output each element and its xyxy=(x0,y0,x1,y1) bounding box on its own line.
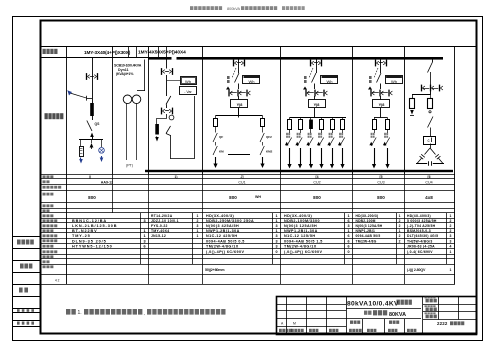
load arrow xyxy=(342,148,344,165)
breaker QF drop xyxy=(213,133,217,142)
wire to delta xyxy=(430,144,432,149)
wire meter tie xyxy=(167,80,180,82)
svg-text:4x8: 4x8 xyxy=(425,195,433,200)
contactor KM drop xyxy=(213,146,217,155)
svg-text:2: 2 xyxy=(450,229,452,233)
trip link dashed xyxy=(374,68,378,78)
svg-text:1: 1 xyxy=(143,234,145,238)
earth arrow left xyxy=(80,158,82,161)
current transformer circle xyxy=(169,115,174,120)
breaker drop xyxy=(371,138,376,147)
contactor wedge xyxy=(306,142,310,145)
distribution bus col E xyxy=(290,117,347,119)
svg-text:6: 6 xyxy=(143,245,145,249)
wire xyxy=(387,129,389,133)
svg-text:HD(3X-400/3): HD(3X-400/3) xyxy=(284,214,312,218)
wire feeder drop xyxy=(238,96,240,100)
wire xyxy=(215,127,217,133)
switch col G xyxy=(428,62,433,73)
equipment list group1 xyxy=(72,219,146,249)
wire drop xyxy=(387,118,389,120)
wire branch left xyxy=(80,140,82,147)
wire drop xyxy=(374,118,376,120)
svg-text:1: 1 xyxy=(399,229,401,233)
svg-text:TH(5W-4/BG/3: TH(5W-4/BG/3 xyxy=(407,239,433,243)
svg-text:- Var: - Var xyxy=(184,90,192,94)
svg-text:3: 3 xyxy=(143,239,145,243)
equipment list group4 xyxy=(284,214,350,254)
breaker drop xyxy=(340,138,345,147)
wire loop bottom xyxy=(171,158,195,160)
breaker drop labels xyxy=(384,133,388,138)
svg-text:RT14-20/2A: RT14-20/2A xyxy=(151,214,173,218)
switch lower col C xyxy=(166,126,171,134)
svg-text:N1C-12 425/5H: N1C-12 425/5H xyxy=(206,234,237,238)
svg-text:HD(3X-200/3): HD(3X-200/3) xyxy=(356,214,379,218)
svg-text:1.: 1. xyxy=(78,310,82,316)
fuse FU1 xyxy=(90,103,94,116)
svg-text:BT-N22BV: BT-N22BV xyxy=(72,229,98,233)
wire drop xyxy=(310,118,312,120)
breaker drop xyxy=(308,138,313,147)
divider col G right xyxy=(454,47,456,174)
svg-text:800: 800 xyxy=(377,195,385,200)
svg-text:Y|8: Y|8 xyxy=(379,103,385,107)
label column divider xyxy=(66,47,68,284)
meter Var box xyxy=(180,87,197,95)
svg-text:J]: J] xyxy=(240,175,243,179)
svg-text:1: 1 xyxy=(275,214,277,218)
wire xyxy=(215,142,217,146)
wire xyxy=(166,75,168,96)
svg-text:1: 1 xyxy=(197,229,199,233)
svg-text:3: 3 xyxy=(347,224,349,228)
transformer spec text xyxy=(114,64,142,77)
svg-text:800: 800 xyxy=(229,195,237,200)
table column lines lower xyxy=(149,264,405,284)
svg-text:1: 1 xyxy=(347,214,349,218)
svg-text:2: 2 xyxy=(399,224,401,228)
equipment list group5 xyxy=(356,214,401,244)
breaker drop labels xyxy=(286,133,290,138)
drawout contacts feeder xyxy=(375,60,387,67)
load arrow xyxy=(387,148,389,165)
svg-text:800: 800 xyxy=(88,195,96,200)
wire branch right xyxy=(101,140,103,148)
breaker QF feeder xyxy=(316,60,318,74)
breaker drop labels xyxy=(297,133,301,138)
contactor wedge xyxy=(285,142,289,145)
wire xyxy=(310,129,312,133)
svg-text:,: , xyxy=(144,311,145,316)
title right grid labels xyxy=(425,297,437,319)
breaker drop xyxy=(297,138,302,147)
breaker drop labels xyxy=(371,133,375,138)
drawout contacts feeder xyxy=(233,60,245,67)
wire xyxy=(332,129,334,133)
note text line xyxy=(66,309,226,316)
divider col E/F xyxy=(352,47,354,174)
title block frame xyxy=(277,297,477,335)
wire drop xyxy=(300,118,302,120)
load arrow xyxy=(332,148,334,165)
svg-text:HTYWN5-12/150: HTYWN5-12/150 xyxy=(72,245,113,249)
contactor wedge xyxy=(327,142,331,145)
svg-text:NWP1-2B(1-30A: NWP1-2B(1-30A xyxy=(284,229,318,233)
svg-text:800kVA: 800kVA xyxy=(227,7,240,11)
distribution bus col D xyxy=(216,115,263,117)
drawout contacts feeder xyxy=(310,60,322,67)
svg-text:2: 2 xyxy=(450,224,452,228)
title bottom row cells xyxy=(279,319,416,334)
svg-text:1: 1 xyxy=(275,229,277,233)
svg-text:(): () xyxy=(89,175,91,179)
CT box drop xyxy=(331,120,335,130)
wire branch right col G xyxy=(430,92,432,99)
load arrow xyxy=(289,148,291,165)
svg-text:3: 3 xyxy=(450,234,452,238)
svg-text:0094-4AB 50/5 1.5: 0094-4AB 50/5 1.5 xyxy=(284,239,323,243)
svg-text:QS: QS xyxy=(95,122,101,126)
drawing number text xyxy=(437,321,464,326)
breaker drop xyxy=(287,138,292,147)
svg-text:2222: 2222 xyxy=(437,321,448,326)
wire drop xyxy=(321,118,323,120)
node tap xyxy=(86,96,88,101)
svg-text:TM(2W-4/8G: TM(2W-4/8G xyxy=(356,240,377,244)
svg-text:2: 2 xyxy=(399,219,401,223)
meter box YJ8 xyxy=(231,100,248,108)
svg-text:NDB2-250M/3300 250A: NDB2-250M/3300 250A xyxy=(206,219,254,223)
wire xyxy=(92,116,94,120)
node mark col G xyxy=(429,111,431,113)
svg-text:Y|8: Y|8 xyxy=(314,103,320,107)
wire main HV line xyxy=(92,58,94,104)
svg-text:c: c xyxy=(427,138,429,143)
meter box YJ8 xyxy=(373,100,390,108)
svg-text:KM: KM xyxy=(219,150,224,154)
drawout contacts feeder lower xyxy=(228,90,250,97)
earth arrow lamp xyxy=(101,156,103,159)
svg-text:80KVA: 80KVA xyxy=(389,312,406,318)
drawout contacts col C xyxy=(161,68,173,75)
svg-text:CU4: CU4 xyxy=(425,180,432,184)
breaker drop labels xyxy=(329,133,333,138)
equipment list group6 xyxy=(407,214,452,254)
wire drop xyxy=(342,118,344,120)
meter box YJ8 xyxy=(309,100,326,108)
svg-text:(-2)-T04 A25/5H: (-2)-T04 A25/5H xyxy=(407,224,436,228)
title block verticals xyxy=(287,296,459,334)
svg-text:TMY-40X4: TMY-40X4 xyxy=(151,229,169,233)
contactor wedge xyxy=(383,142,387,145)
diagram row label xyxy=(45,113,48,119)
table column lines upper xyxy=(113,174,405,213)
svg-text:QF: QF xyxy=(219,135,223,139)
wire drop xyxy=(332,118,334,120)
svg-text:[4: [4 xyxy=(315,175,318,179)
contactor wedge xyxy=(338,142,342,145)
label cell text xyxy=(43,49,46,54)
wire xyxy=(262,142,264,146)
table row lines xyxy=(41,175,455,285)
svg-text:1: 1 xyxy=(399,214,401,218)
header cell ticks xyxy=(129,47,167,58)
svg-text:CU3: CU3 xyxy=(377,180,384,184)
svg-text:4: 4 xyxy=(450,245,452,249)
svg-text:1: 1 xyxy=(450,268,452,272)
table column lines equipment xyxy=(141,213,447,264)
discharge resistor col G xyxy=(410,99,415,109)
contactor box C xyxy=(424,137,436,145)
svg-text:1: 1 xyxy=(197,234,199,238)
svg-text:2: 2 xyxy=(450,219,452,223)
wire xyxy=(430,128,432,137)
disconnect switch QS xyxy=(87,121,92,132)
wire drop xyxy=(262,116,264,119)
table row labels xyxy=(43,175,62,268)
busbar spec row xyxy=(205,268,452,272)
load arrow xyxy=(310,148,312,165)
svg-text:[5: [5 xyxy=(379,175,382,179)
breaker QF feeder xyxy=(238,60,240,74)
svg-text:Wh: Wh xyxy=(185,79,191,84)
wire xyxy=(374,129,376,133)
breaker QF feeder xyxy=(380,60,382,74)
PT winding circle b xyxy=(132,95,141,104)
drawout contacts QS1 xyxy=(86,73,98,80)
table right edge xyxy=(454,174,456,284)
svg-text:(-/)(( 2.80QV: (-/)(( 2.80QV xyxy=(407,268,426,272)
CT box drop xyxy=(341,120,345,130)
trip link dashed xyxy=(232,68,236,78)
svg-text:3: 3 xyxy=(275,239,277,243)
svg-text:4 2: 4 2 xyxy=(55,279,60,283)
svg-text:WH: WH xyxy=(255,195,261,199)
svg-text:1MY-4X50X5+P()40X4: 1MY-4X50X5+P()40X4 xyxy=(138,50,186,56)
drawout contacts col C lower xyxy=(161,108,173,115)
wire feeder drop xyxy=(380,96,382,100)
svg-text:1: 1 xyxy=(197,214,199,218)
meter Wh box feeder xyxy=(386,76,403,84)
wire xyxy=(321,129,323,133)
contactor wedge xyxy=(295,142,299,145)
load arrow xyxy=(262,157,264,165)
inner drawing frame xyxy=(41,21,477,334)
PT winding R1 xyxy=(80,147,84,157)
svg-text:BSMJ045-0-3: BSMJ045-0-3 xyxy=(407,229,431,233)
panel model row xyxy=(101,180,433,184)
meter Wh box xyxy=(181,77,197,85)
svg-text:FYS-0.22: FYS-0.22 xyxy=(151,224,168,228)
indicator lamp HL xyxy=(99,148,105,154)
svg-text:2: 2 xyxy=(399,240,401,244)
svg-text:DLT(645/30) 4G/5: DLT(645/30) 4G/5 xyxy=(407,234,438,238)
svg-text:(,0-4( 6C/690V: (,0-4( 6C/690V xyxy=(407,250,433,254)
svg-text:CU1: CU1 xyxy=(238,180,245,184)
svg-text:CU2: CU2 xyxy=(313,180,320,184)
panel number row xyxy=(89,175,431,179)
breaker col C xyxy=(166,96,171,105)
svg-text:3: 3 xyxy=(450,239,452,243)
svg-text:6: 6 xyxy=(347,219,349,223)
svg-text:KM2: KM2 xyxy=(266,150,273,154)
breaker drop xyxy=(329,138,334,147)
wire PT feed xyxy=(144,60,146,92)
wire col G xyxy=(432,60,434,63)
PT winding circle a xyxy=(123,95,132,104)
distribution bus col F xyxy=(374,117,388,119)
svg-text:3: 3 xyxy=(143,219,145,223)
contactor wedge xyxy=(317,142,321,145)
title block horizontals right xyxy=(423,305,477,320)
meter Wh box feeder xyxy=(321,76,338,84)
svg-text:3: 3 xyxy=(275,224,277,228)
svg-text:NWP1-2B(1-30A: NWP1-2B(1-30A xyxy=(206,229,240,233)
breaker drop labels xyxy=(339,133,343,138)
svg-text:6: 6 xyxy=(347,234,349,238)
divider col C/D xyxy=(202,47,204,174)
incoming cable wire xyxy=(70,93,87,98)
aux text marks xyxy=(303,76,307,90)
drawout contacts col G xyxy=(421,85,443,92)
svg-text:1: 1 xyxy=(450,214,452,218)
CT box drop xyxy=(386,120,390,130)
wire main col C xyxy=(166,60,168,69)
arrester arrow xyxy=(92,136,94,138)
CT box drop xyxy=(373,120,377,130)
wire feeder drop xyxy=(314,96,316,100)
wire xyxy=(289,129,291,133)
svg-text:QF2: QF2 xyxy=(266,135,272,139)
capacity row xyxy=(88,195,433,200)
wire col G mid xyxy=(430,72,432,95)
wire xyxy=(342,129,344,133)
title block horizontals left xyxy=(277,305,346,327)
svg-text:Y|8: Y|8 xyxy=(237,103,243,107)
equipment list group2 xyxy=(151,214,199,238)
svg-text:3: 3 xyxy=(197,224,199,228)
breaker drop labels xyxy=(308,133,312,138)
svg-text:HD(4X-400/3): HD(4X-400/3) xyxy=(407,214,431,218)
left margin text approvals xyxy=(17,240,34,325)
load arrow xyxy=(215,157,217,165)
divider col D/E xyxy=(280,47,282,174)
surge arrester F1 xyxy=(91,147,93,150)
breaker col G xyxy=(428,117,434,128)
svg-text:TM(2W-4/8G/1X: TM(2W-4/8G/1X xyxy=(206,245,239,249)
svg-text:0: 0 xyxy=(275,250,277,254)
contactor KM drop xyxy=(260,146,264,155)
left margin table lines xyxy=(13,237,41,327)
drawout contacts feeder lower xyxy=(370,90,392,97)
wire loop right riser xyxy=(194,96,196,159)
svg-text:Wh: Wh xyxy=(249,79,255,84)
wire drop xyxy=(215,116,217,119)
svg-text:TM(2W-4/8G/1X: TM(2W-4/8G/1X xyxy=(284,245,317,249)
wire xyxy=(262,127,264,133)
svg-text:1): 1) xyxy=(174,175,177,179)
svg-text:80kVA10/0.4KV: 80kVA10/0.4KV xyxy=(347,300,399,307)
svg-text:NWP1-2B(1: NWP1-2B(1 xyxy=(356,229,376,233)
load arrow xyxy=(300,148,302,165)
CT box drop xyxy=(320,120,324,130)
wire xyxy=(300,129,302,133)
svg-text:6: 6 xyxy=(347,239,349,243)
aux text marks xyxy=(368,76,372,90)
svg-text:AA9-12: AA9-12 xyxy=(101,180,113,184)
wire col D drop xyxy=(238,108,240,116)
load arrow xyxy=(321,148,323,165)
CT box drop xyxy=(214,119,218,127)
svg-text:2: 2 xyxy=(197,219,199,223)
CT box drop xyxy=(299,120,303,130)
svg-text:1: 1 xyxy=(450,250,452,254)
svg-text:NDB2-100M/3300: NDB2-100M/3300 xyxy=(284,219,320,223)
svg-text:1MY-3X40(4+P()X30X): 1MY-3X40(4+P()X30X) xyxy=(84,50,131,55)
svg-text:50)(2+80mm: 50)(2+80mm xyxy=(205,268,224,272)
svg-text:HD(3X-400/3): HD(3X-400/3) xyxy=(206,214,234,218)
svg-text:5 000(3 425A/5H: 5 000(3 425A/5H xyxy=(407,219,437,223)
divider col B/C xyxy=(148,47,150,174)
CT fuse filled xyxy=(155,124,159,135)
svg-text:2: 2 xyxy=(399,234,401,238)
breaker drop xyxy=(385,138,390,147)
meter Wh box feeder xyxy=(243,76,260,84)
svg-text:JDZJ-10 10/0.1: JDZJ-10 10/0.1 xyxy=(151,219,179,223)
wire loop down xyxy=(170,135,172,159)
divider col A/B xyxy=(112,47,114,174)
svg-text:Wh: Wh xyxy=(391,79,397,84)
svg-text:0: 0 xyxy=(347,250,349,254)
breaker drop labels xyxy=(318,133,322,138)
svg-text:BBN1C-12/BA: BBN1C-12/BA xyxy=(72,219,107,223)
CT box drop xyxy=(261,119,265,127)
svg-text:1: 1 xyxy=(143,229,145,233)
breaker QF drop xyxy=(260,133,264,142)
aux text marks xyxy=(226,76,230,90)
svg-text:1: 1 xyxy=(347,229,349,233)
header separator line xyxy=(41,46,477,48)
wire PT secondary b xyxy=(136,103,138,160)
incoming arrow xyxy=(68,91,73,96)
svg-text:800: 800 xyxy=(313,195,321,200)
title sub text xyxy=(364,310,406,318)
svg-text:N(00(3 125A/5H: N(00(3 125A/5H xyxy=(356,224,383,228)
svg-text:(,0()-4P() 6C/690V: (,0()-4P() 6C/690V xyxy=(206,250,245,254)
LV main busbar xyxy=(148,57,443,60)
wire to PT bar xyxy=(92,136,94,140)
svg-text:JN15-12: JN15-12 xyxy=(151,234,166,238)
svg-text:0094-4AB 50/5 0.5: 0094-4AB 50/5 0.5 xyxy=(206,239,245,243)
svg-text:1: 1 xyxy=(275,219,277,223)
svg-text:(,0()-4P() 6C/690V: (,0()-4P() 6C/690V xyxy=(284,250,323,254)
svg-text:TMY-25: TMY-25 xyxy=(72,234,91,238)
earth arrow col G xyxy=(412,110,414,113)
svg-text:3: 3 xyxy=(275,245,277,249)
svg-text:DLN9-35 20/5: DLN9-35 20/5 xyxy=(72,239,107,243)
svg-text:(KVA)4+1%: (KVA)4+1% xyxy=(116,72,134,76)
svg-text:6: 6 xyxy=(347,245,349,249)
page title text xyxy=(190,6,305,11)
title block horizontals title xyxy=(346,309,421,319)
svg-text:NDB2-100M: NDB2-100M xyxy=(356,219,376,223)
earth arrow CT xyxy=(156,137,158,139)
svg-text:M: M xyxy=(293,322,296,326)
wire drop xyxy=(289,118,291,120)
divider col F/G xyxy=(404,47,406,174)
capacitor delta left side xyxy=(417,148,430,164)
